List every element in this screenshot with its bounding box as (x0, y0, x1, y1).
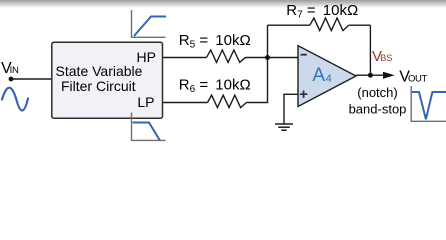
svg-text:BS: BS (380, 53, 392, 63)
wire op-amp output (356, 74, 383, 76)
svg-text:R6 = 10kΩ: R6 = 10kΩ (179, 77, 251, 96)
ground (275, 124, 293, 130)
svg-text:OUT: OUT (408, 73, 428, 84)
node VIN (9, 77, 14, 82)
op-amp inverting input mark (301, 54, 307, 56)
block state variable filter circuit (52, 42, 163, 118)
resistor R7 (310, 18, 349, 31)
source VIN sine symbol (2, 88, 28, 111)
svg-text:State Variable: State Variable (56, 63, 143, 79)
icon high-pass response (132, 10, 167, 37)
wire R6 to node A riser (246, 58, 267, 103)
wire feedback top right segment (349, 24, 371, 26)
wire feedback right drop (369, 25, 371, 75)
label VIN (1, 60, 19, 77)
svg-text:band-stop: band-stop (349, 102, 407, 117)
wire HP output to R5 (163, 57, 207, 59)
arrow to VOUT (383, 72, 395, 79)
icon notch band-stop response (411, 86, 446, 121)
icon low-pass response (132, 113, 166, 141)
wire R5 to node A (246, 57, 268, 59)
node VBS output junction (368, 73, 373, 78)
svg-text:IN: IN (10, 65, 19, 76)
svg-text:R7 = 10kΩ: R7 = 10kΩ (286, 2, 358, 21)
resistor R5 (207, 50, 246, 62)
wire feedback top left segment (268, 24, 310, 26)
op-amp non-inverting input mark (300, 91, 307, 98)
svg-text:A: A (312, 65, 325, 86)
svg-text:Filter Circuit: Filter Circuit (61, 78, 136, 94)
resistor R6 (208, 95, 247, 107)
wire node A to inverting input (268, 57, 299, 59)
label VOUT (399, 68, 427, 85)
label VBS (372, 48, 392, 65)
wire non-inverting input to ground (284, 94, 298, 124)
svg-text:(notch): (notch) (357, 85, 397, 100)
svg-text:LP: LP (137, 94, 154, 110)
op-amp A4 (298, 46, 356, 107)
wire LP output to R6 (163, 102, 208, 104)
svg-text:HP: HP (137, 49, 156, 65)
svg-text:R5 = 10kΩ: R5 = 10kΩ (179, 32, 251, 51)
wire VIN to filter block (11, 78, 52, 80)
node A summing junction (265, 55, 270, 60)
svg-text:4: 4 (326, 73, 332, 85)
wire feedback left riser (267, 25, 269, 57)
